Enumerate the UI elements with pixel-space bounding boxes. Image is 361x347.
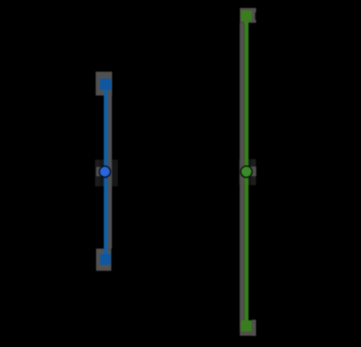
ghost handle box at wire W1 bottom endpoint (96, 249, 111, 271)
hover highlight square around node A (wire W1 midpoint) (95, 160, 118, 187)
node B: junction circle on wire W2 (241, 166, 252, 177)
hover highlight square around node B (wire W2 midpoint) (239, 159, 256, 185)
node A: junction circle on wire W1 (99, 166, 110, 177)
ghost handle box at wire W1 top endpoint (96, 72, 112, 96)
ghost node marker left of node A (96, 167, 105, 176)
ghost node marker right of node B (247, 167, 257, 177)
wire W2 (green vertical segment) (244, 13, 248, 326)
endpoint handle square at wire W1 bottom (100, 254, 111, 265)
ghost handle box at wire W2 bottom endpoint (right band) (252, 320, 256, 336)
endpoint handle square at wire W2 bottom (241, 320, 252, 331)
ghost wire segment (gray) beside wire W2 (240, 23, 244, 332)
endpoint handle square at wire W1 top (100, 79, 111, 90)
ghost wire segment (gray) beside wire W1 (108, 96, 112, 249)
wire W1 (blue vertical segment) (104, 81, 108, 262)
notch in ghost handle box at wire W2 top (255, 12, 256, 19)
hover highlight lighter column left of node A (95, 160, 99, 187)
ghost handle box at wire W2 top endpoint (240, 8, 256, 23)
hover highlight lighter column right of node B (251, 159, 256, 185)
endpoint handle square at wire W2 top (241, 10, 252, 21)
ghost handle box at wire W2 bottom endpoint (lower band) (240, 332, 256, 336)
